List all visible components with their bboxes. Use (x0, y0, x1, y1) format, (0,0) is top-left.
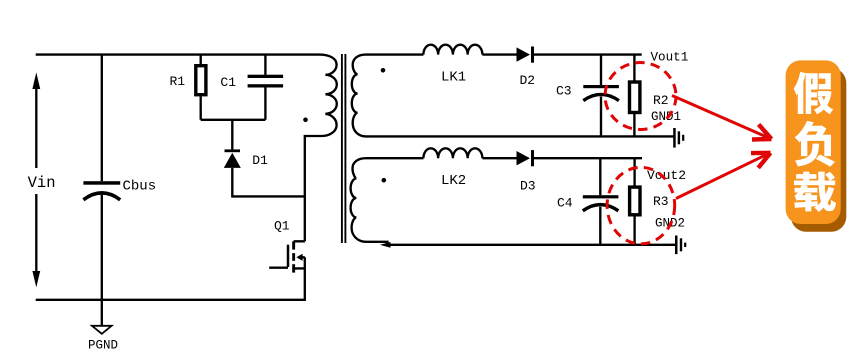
svg-text:Cbus: Cbus (123, 179, 157, 195)
svg-text:GND1: GND1 (651, 110, 681, 124)
svg-text:R2: R2 (653, 93, 669, 108)
svg-text:Vin: Vin (28, 174, 56, 192)
svg-text:C4: C4 (557, 196, 573, 211)
svg-text:LK1: LK1 (441, 69, 466, 85)
svg-text:D3: D3 (520, 179, 536, 194)
svg-text:Vout1: Vout1 (651, 51, 689, 65)
svg-text:R3: R3 (653, 194, 669, 209)
svg-text:Q1: Q1 (274, 219, 290, 234)
svg-text:D2: D2 (520, 73, 536, 88)
svg-text:PGND: PGND (88, 339, 118, 353)
svg-text:C1: C1 (220, 75, 236, 90)
svg-text:Vout2: Vout2 (647, 168, 686, 183)
svg-text:R1: R1 (170, 74, 186, 89)
svg-text:D1: D1 (252, 153, 268, 168)
svg-text:LK2: LK2 (441, 173, 466, 189)
svg-text:C3: C3 (556, 84, 572, 99)
